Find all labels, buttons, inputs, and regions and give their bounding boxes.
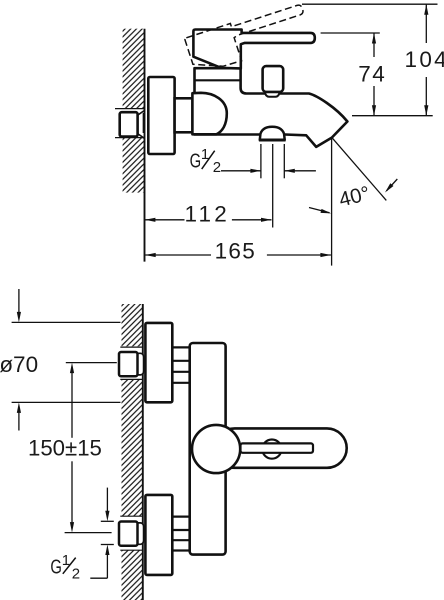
svg-text:74: 74 <box>358 61 386 86</box>
svg-text:112: 112 <box>185 201 230 226</box>
svg-text:150±15: 150±15 <box>28 435 102 460</box>
svg-text:2: 2 <box>72 566 80 583</box>
svg-text:165: 165 <box>215 239 256 264</box>
svg-text:G: G <box>190 149 202 172</box>
svg-text:ø70: ø70 <box>0 352 38 377</box>
svg-text:104: 104 <box>405 47 444 72</box>
svg-text:2: 2 <box>213 159 221 176</box>
svg-text:G: G <box>50 555 62 578</box>
